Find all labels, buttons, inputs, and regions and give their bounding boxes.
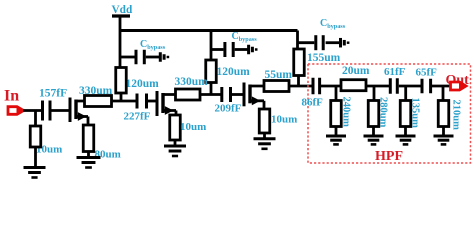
wire 55um to node3 — [289, 85, 313, 88]
inductor 10um stage3 label — [271, 114, 297, 126]
wire supply drop stage3 — [296, 31, 299, 50]
wire Vdd rail — [120, 29, 298, 32]
wire 157fF to M1 gate — [52, 109, 71, 112]
wire 210um to ground — [442, 127, 445, 136]
wire 209fF to M3 gate — [232, 93, 244, 96]
wire Cbypass1 stub — [120, 56, 135, 59]
capacitor 86fF label — [302, 97, 324, 109]
inductor 155um label — [307, 52, 341, 64]
inductor 330um stage1 label — [79, 85, 113, 97]
transistor M1 — [70, 98, 101, 123]
capacitor 157fF label — [39, 88, 67, 100]
inductor 330um stage1 — [85, 96, 112, 107]
inductor 55um label — [265, 69, 293, 81]
wire Cbypass3 to ground — [326, 41, 341, 44]
inductor 55um — [264, 81, 289, 92]
svg-text:157fF: 157fF — [39, 88, 67, 100]
capacitor Cbypass3 — [316, 35, 323, 50]
wire 227fF to M2 gate — [148, 100, 157, 103]
ground M3 source — [254, 139, 276, 149]
wire Cbypass1 to ground — [146, 56, 161, 59]
wire 135um to ground — [404, 127, 407, 136]
svg-text:20um: 20um — [342, 65, 370, 77]
svg-text:209fF: 209fF — [215, 103, 242, 115]
port Out — [451, 82, 467, 90]
wire 10um input to ground — [34, 147, 37, 167]
capacitor 209fF — [222, 87, 231, 102]
capacitor Cbypass1 label — [140, 39, 166, 51]
inductor 10um stage3 — [259, 109, 270, 133]
ground input shunt — [24, 168, 46, 178]
wire Cbypass2 to ground — [235, 48, 249, 51]
inductor 120um stage1 — [116, 68, 127, 94]
capacitor 86fF — [313, 78, 320, 95]
inductor 330um stage2 label — [175, 76, 209, 88]
inductor 240um — [331, 101, 342, 127]
inductor 330um stage2 — [176, 89, 201, 100]
inductor 120um stage2 — [206, 60, 217, 83]
svg-text:330um: 330um — [175, 76, 209, 88]
Vdd supply bar — [112, 14, 130, 17]
wire 10um3 to ground — [263, 133, 266, 139]
HPF dashed box — [308, 64, 471, 163]
Vdd label — [112, 4, 133, 16]
ground 135um — [396, 136, 416, 144]
wire 240um to ground — [335, 127, 338, 136]
node7 drop — [442, 86, 445, 101]
svg-text:155um: 155um — [307, 52, 341, 64]
wire 86fF to node4 — [321, 85, 342, 88]
wire Cbypass2 stub — [211, 48, 223, 51]
wire Cbypass3 stub — [298, 41, 315, 44]
svg-text:61fF: 61fF — [384, 66, 406, 78]
In label — [4, 88, 19, 105]
wire 61fF to node6 — [399, 85, 423, 88]
node input shunt — [34, 111, 37, 127]
capacitor 209fF label — [215, 103, 242, 115]
wire 280um to ground — [372, 127, 375, 136]
wire 120um1 to node1 — [120, 93, 123, 101]
Out label — [446, 73, 470, 88]
capacitor Cbypass3 label — [320, 18, 346, 30]
wire M2 source down — [175, 111, 178, 116]
svg-text:86fF: 86fF — [302, 97, 324, 109]
inductor 280um — [368, 101, 379, 127]
wire 10um2 to ground — [174, 140, 177, 146]
transistor M2 — [157, 91, 189, 116]
ground M2 source — [164, 146, 186, 156]
inductor 135um — [400, 101, 411, 127]
svg-text:120um: 120um — [217, 66, 251, 78]
inductor 155um — [294, 49, 305, 76]
inductor 80um label — [95, 149, 121, 161]
wire M3 source down — [263, 101, 266, 109]
inductor 135um rotated label — [410, 98, 421, 129]
inductor 20um label — [342, 65, 370, 77]
ground 210um — [434, 136, 454, 144]
node4 drop — [335, 86, 338, 101]
inductor 80um — [83, 125, 94, 152]
capacitor Cbypass2 label — [232, 31, 258, 43]
ground 280um — [364, 136, 384, 144]
capacitor Cbypass2 — [225, 42, 233, 57]
wire 80um to ground — [87, 152, 90, 158]
inductor 10um stage2 — [170, 115, 181, 140]
wire In to node — [23, 109, 41, 112]
wire 330um2 to node2 — [200, 93, 222, 96]
svg-text:HPF: HPF — [375, 149, 403, 164]
svg-text:65fF: 65fF — [416, 67, 438, 79]
ground Cbypass3 — [341, 38, 349, 48]
inductor 240um rotated label — [341, 97, 352, 128]
HPF label — [375, 149, 403, 164]
svg-text:In: In — [4, 88, 19, 105]
capacitor 65fF label — [416, 67, 438, 79]
transistor M3 — [244, 83, 277, 107]
svg-text:120um: 120um — [126, 78, 160, 90]
capacitor 61fF label — [384, 66, 406, 78]
svg-text:10um: 10um — [271, 114, 297, 126]
node5 drop — [373, 86, 376, 101]
inductor 280um rotated label — [378, 97, 389, 128]
wire supply drop stage2 — [210, 31, 213, 61]
node6 drop — [404, 86, 407, 101]
inductor 120um stage1 label — [126, 78, 160, 90]
svg-text:Vdd: Vdd — [112, 4, 133, 16]
inductor 120um stage2 label — [217, 66, 251, 78]
svg-text:10um: 10um — [180, 121, 206, 133]
inductor 210um — [438, 101, 449, 127]
ground 240um — [326, 136, 346, 144]
capacitor 157fF — [43, 101, 51, 121]
inductor 210um rotated label — [451, 100, 462, 131]
capacitor 227fF — [137, 94, 147, 109]
port In — [8, 107, 24, 115]
ground M1 source — [77, 158, 101, 168]
capacitor 227fF label — [124, 111, 151, 123]
svg-text:210um: 210um — [451, 100, 462, 131]
ground Cbypass1 — [160, 52, 168, 62]
ground Cbypass2 — [249, 45, 257, 55]
capacitor 65fF — [422, 79, 431, 94]
inductor 10um input — [30, 126, 41, 147]
wire 120um2 to node2 — [210, 83, 213, 95]
wire Vdd stem — [119, 16, 122, 68]
wire M1 source down — [87, 117, 90, 126]
wire 155um to node3 — [297, 76, 300, 87]
inductor 20um — [341, 80, 366, 91]
capacitor 61fF — [390, 78, 397, 94]
svg-text:227fF: 227fF — [124, 111, 151, 123]
wire 20um to node5 — [366, 85, 391, 88]
inductor 10um input label — [36, 144, 62, 156]
wire 65fF to node7 — [432, 85, 450, 88]
capacitor Cbypass1 — [136, 50, 144, 65]
inductor 10um stage2 label — [180, 121, 206, 133]
wire 330um1 to node1 — [112, 100, 138, 103]
